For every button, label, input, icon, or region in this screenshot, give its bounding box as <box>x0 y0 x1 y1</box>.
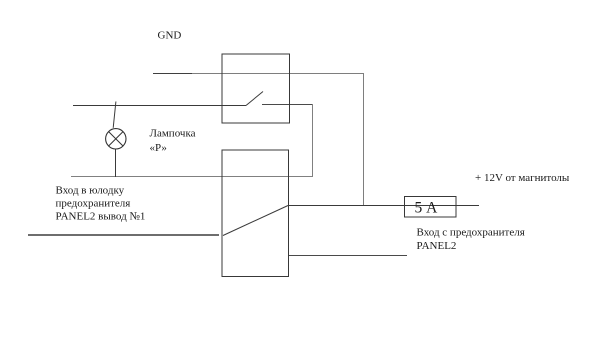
svg-text:предохранителя: предохранителя <box>56 197 131 209</box>
svg-text:Лампочка: Лампочка <box>150 128 196 140</box>
svg-text:+ 12V от магнитолы: + 12V от магнитолы <box>475 172 570 184</box>
svg-text:GND: GND <box>158 30 182 42</box>
svg-text:Вход с предохранителя: Вход с предохранителя <box>417 227 525 239</box>
svg-text:5 А: 5 А <box>415 200 439 217</box>
svg-text:PANEL2 вывод №1: PANEL2 вывод №1 <box>56 211 146 223</box>
svg-text:«Р»: «Р» <box>150 142 167 154</box>
svg-text:Вход в юлодку: Вход в юлодку <box>56 185 125 197</box>
svg-text:PANEL2: PANEL2 <box>417 240 457 252</box>
